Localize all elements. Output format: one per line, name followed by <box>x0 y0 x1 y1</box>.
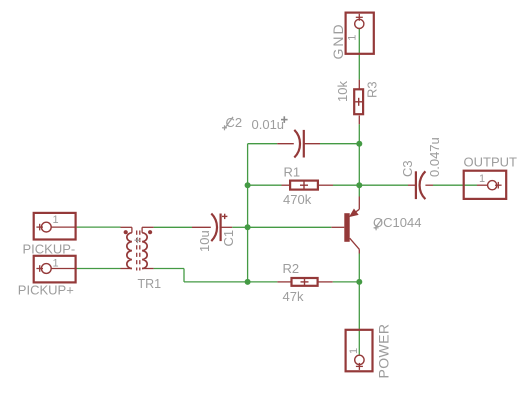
svg-text:PICKUP+: PICKUP+ <box>18 283 74 298</box>
junction right of C2 <box>356 141 362 147</box>
connector OUTPUT <box>464 171 507 199</box>
wire node to C3 <box>359 184 408 186</box>
svg-text:C3: C3 <box>400 160 415 177</box>
wire R2 row left <box>248 281 278 283</box>
capacitor C3 <box>408 171 433 199</box>
svg-text:TR1: TR1 <box>138 277 162 291</box>
junction R2 row left <box>245 279 251 285</box>
svg-text:0.047u: 0.047u <box>427 137 442 177</box>
transformer TR1 <box>121 227 154 270</box>
wire C2 row left segment <box>248 143 278 145</box>
wire GND to R3 <box>358 29 360 80</box>
wire node down to R1 row <box>358 144 360 186</box>
wire feedback column <box>247 144 249 282</box>
svg-text:1: 1 <box>53 214 59 226</box>
origin mark TR1 <box>135 237 141 243</box>
wire PICKUP- to trafo <box>77 226 121 228</box>
svg-text:1: 1 <box>347 35 359 41</box>
svg-text:C1: C1 <box>221 230 236 247</box>
svg-text:10k: 10k <box>335 81 350 102</box>
wire R3 to node <box>358 124 360 143</box>
text origin mark OC1044 <box>374 219 382 230</box>
junction base row <box>245 224 251 230</box>
svg-text:47k: 47k <box>283 289 304 304</box>
svg-text:OUTPUT: OUTPUT <box>464 155 518 170</box>
resistor R1 <box>282 181 334 190</box>
text origin mark C2 <box>222 117 233 130</box>
svg-text:PICKUP-: PICKUP- <box>23 242 76 257</box>
svg-text:1: 1 <box>53 258 59 270</box>
svg-text:POWER: POWER <box>375 324 391 379</box>
svg-text:OC1044: OC1044 <box>373 215 421 230</box>
wire node to collector <box>358 185 360 196</box>
wire PICKUP+ to trafo <box>77 268 121 270</box>
junction R1 row left <box>245 182 251 188</box>
svg-text:0.01u: 0.01u <box>252 117 285 132</box>
connector PICKUP- <box>34 213 77 240</box>
svg-text:470k: 470k <box>283 192 312 207</box>
connector POWER <box>346 330 373 372</box>
svg-text:R2: R2 <box>283 261 300 276</box>
svg-text:GND: GND <box>330 22 346 59</box>
wire R1 row left segment <box>248 184 282 186</box>
svg-text:R1: R1 <box>284 165 301 180</box>
polarity + of C2 <box>281 116 288 123</box>
junction R2 right <box>356 279 362 285</box>
svg-text:1: 1 <box>348 348 360 354</box>
wire C3 to OUTPUT <box>433 184 477 186</box>
wire C2 to node <box>320 143 359 145</box>
wire R1 to node <box>333 184 359 186</box>
wire C1 to base node <box>232 226 247 228</box>
transistor Q1 OC1044 <box>331 197 359 254</box>
connector GND J-GND <box>346 13 374 54</box>
junction right of R1 <box>356 182 362 188</box>
capacitor C1 <box>192 214 232 242</box>
svg-text:10u: 10u <box>197 230 212 252</box>
svg-text:C2: C2 <box>226 115 243 130</box>
wire step to R2 junction <box>184 281 248 283</box>
svg-text:1: 1 <box>479 173 485 185</box>
connector PICKUP+ <box>34 256 77 283</box>
wire base row to transistor <box>248 226 332 228</box>
resistor R3 <box>354 80 363 125</box>
wire emitter to POWER <box>358 254 360 356</box>
capacitor C2 <box>277 130 320 158</box>
wire trafo to C1 <box>154 226 192 228</box>
wire trafo bottom to R2 row: horizontal <box>154 268 184 270</box>
wire R2 to emitter column <box>333 281 360 283</box>
svg-text:R3: R3 <box>365 81 380 98</box>
wire step down <box>183 269 185 282</box>
resistor R2 <box>277 278 332 286</box>
